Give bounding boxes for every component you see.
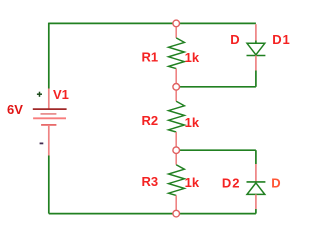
- plate 3 (long): [33, 117, 66, 119]
- triangle D1 (pointing down): [247, 43, 265, 55]
- svg-text:D2: D2: [222, 176, 241, 191]
- minus sign of V1: [40, 142, 44, 144]
- svg-text:1k: 1k: [185, 115, 200, 130]
- plus sign of V1: [37, 92, 42, 97]
- plate 2 (short): [41, 113, 57, 115]
- zigzag R3: [169, 165, 185, 196]
- wire node C to D2 branch: [176, 149, 256, 151]
- pin cathode D2: [255, 164, 257, 182]
- resistor R2: [169, 87, 185, 150]
- pin top of R3: [175, 150, 177, 165]
- node A (top): [173, 20, 180, 27]
- svg-text:D: D: [230, 32, 239, 47]
- plate 4 (short negative): [41, 124, 56, 126]
- svg-text:6V: 6V: [7, 102, 23, 117]
- pin bottom of V1: [48, 125, 50, 156]
- pin anode D1: [255, 24, 257, 40]
- pin bottom of R1: [175, 69, 177, 87]
- node B: [173, 84, 180, 91]
- svg-text:R2: R2: [142, 113, 159, 128]
- wire D1 branch lower green segment: [255, 71, 257, 87]
- svg-text:1k: 1k: [185, 50, 200, 65]
- resistor R3: [169, 150, 185, 213]
- pin bottom of R2: [175, 132, 177, 150]
- pin anode D2: [255, 194, 257, 209]
- wire left vertical lower: [48, 156, 50, 214]
- cathode bar D1: [247, 55, 266, 57]
- pin top of R2: [175, 87, 177, 102]
- plate 1 (positive, dark): [33, 108, 67, 110]
- svg-text:R3: R3: [142, 174, 159, 189]
- wire top horizontal: [49, 22, 256, 24]
- wire left vertical upper: [48, 23, 50, 89]
- node C: [173, 147, 180, 154]
- diode D2: [247, 164, 266, 209]
- pin bottom of R3: [175, 195, 177, 213]
- anode stub green D1: [255, 41, 257, 44]
- diode D1: [247, 24, 266, 70]
- pin top of V1: [48, 89, 50, 109]
- svg-text:D1: D1: [272, 32, 290, 47]
- cathode bar D2: [247, 181, 266, 183]
- svg-text:V1: V1: [53, 87, 69, 102]
- pin cathode D1: [255, 56, 257, 71]
- pin top of R1: [175, 23, 177, 38]
- zigzag R2: [169, 101, 185, 132]
- node D (bottom): [173, 210, 180, 217]
- svg-text:D: D: [271, 176, 280, 191]
- svg-text:1k: 1k: [185, 175, 200, 190]
- wire D2 branch upper green segment: [255, 150, 257, 164]
- svg-text:R1: R1: [142, 49, 159, 64]
- wire bottom horizontal: [49, 213, 256, 215]
- wire D2 branch lower green segment: [255, 209, 257, 214]
- battery V1: [33, 89, 67, 156]
- wire node B to D1 branch: [176, 86, 256, 88]
- triangle D2 (pointing up): [247, 183, 265, 195]
- zigzag R1: [169, 38, 185, 69]
- resistor R1: [169, 23, 185, 86]
